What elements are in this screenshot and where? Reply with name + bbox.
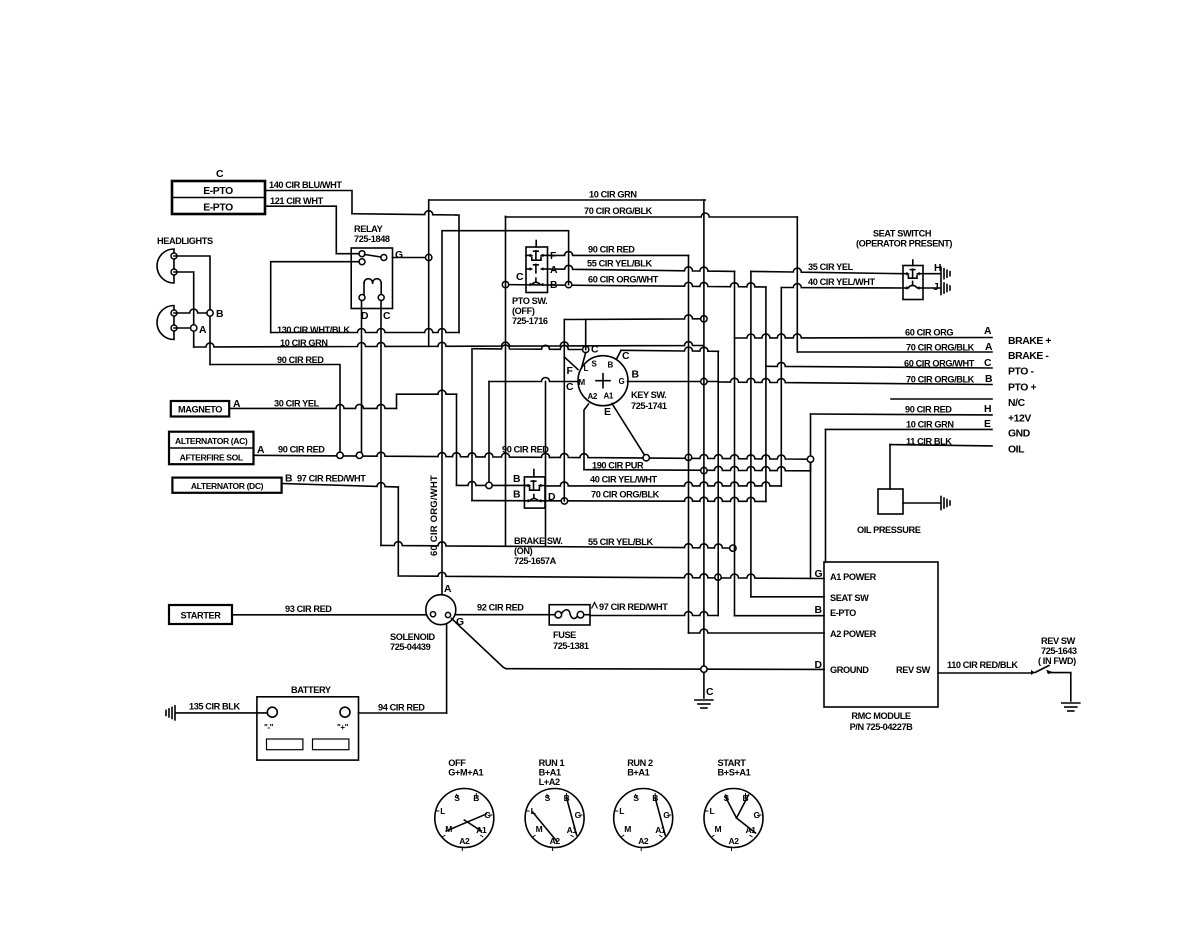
svg-text:A1: A1 [604, 392, 614, 401]
key label A1 [604, 392, 614, 401]
label 60 CIR ORG/WHT out [904, 359, 975, 369]
output pin H label [984, 404, 991, 415]
svg-text:N/C: N/C [1008, 398, 1026, 409]
brake label B bottom [513, 490, 521, 501]
svg-text:L: L [619, 806, 624, 816]
seat switch title [856, 229, 952, 249]
label 70 CIR ORG/BLK out2 [906, 375, 975, 385]
key label G [619, 377, 625, 386]
wire +12V output [811, 414, 993, 459]
svg-text:A: A [199, 325, 207, 336]
wire key G/B row [628, 381, 719, 383]
label 30 CIR YEL [274, 399, 320, 409]
svg-text:B: B [608, 361, 614, 370]
headlight lamp 2 [157, 306, 177, 340]
PTO pin A contact [526, 264, 548, 272]
svg-text:40 CIR YEL/WHT: 40 CIR YEL/WHT [808, 277, 876, 287]
node 60 wire right of PTO [565, 281, 571, 287]
svg-text:RELAY: RELAY [354, 224, 383, 234]
wire key M vertical [488, 382, 490, 486]
label 121 CIR WHT [270, 196, 324, 206]
node 60 wire at C vertical [502, 281, 508, 287]
svg-text:C: C [516, 272, 524, 283]
battery label [291, 685, 331, 695]
svg-text:40 CIR YEL/WHT: 40 CIR YEL/WHT [590, 475, 658, 485]
key label C node [591, 345, 599, 356]
wire relay pin2 to E-PTO return [271, 262, 359, 333]
wire lamp2 bottom to node A [174, 327, 191, 329]
wire oil pressure to ground [903, 497, 950, 510]
svg-text:START: START [718, 758, 747, 768]
wire C node vertical [585, 320, 587, 350]
alternator AC box [169, 432, 254, 465]
alternator DC box [172, 478, 281, 493]
wire seat J ground [923, 282, 950, 295]
node2 rail Va [685, 454, 691, 460]
key position RUN 1 [525, 758, 584, 851]
svg-text:B: B [513, 474, 521, 485]
svg-text:ALTERNATOR (DC): ALTERNATOR (DC) [191, 481, 264, 491]
wire 40 CIR YEL/WHT lower [545, 482, 781, 486]
svg-text:35 CIR YEL: 35 CIR YEL [808, 262, 854, 272]
svg-text:REV SW: REV SW [896, 665, 931, 675]
node ground on V1 [701, 666, 707, 672]
svg-text:E: E [984, 419, 991, 430]
svg-text:F: F [567, 366, 573, 377]
key label L [584, 364, 589, 373]
rev sw contact left [1031, 670, 1035, 675]
wire 60 net jumper up [442, 231, 569, 595]
wire 40 CIR YEL/WHT lower left [457, 481, 529, 485]
svg-text:M: M [624, 824, 631, 834]
label 10 CIR GRN lower [280, 338, 328, 348]
wire 60 CIR ORG/WHT output [766, 362, 992, 368]
svg-text:E: E [604, 407, 611, 418]
label 60 CIR ORG/WHT pto [588, 275, 659, 285]
svg-text:B+A1: B+A1 [627, 768, 649, 778]
vertical stub 545 [545, 382, 547, 546]
wire OIL output [890, 445, 992, 446]
svg-text:A2: A2 [459, 836, 470, 846]
svg-text:A2 POWER: A2 POWER [830, 629, 877, 639]
wire A2 POWER row [689, 629, 825, 633]
svg-text:E-PTO: E-PTO [830, 608, 856, 618]
wire SEAT SW row [751, 596, 824, 598]
PTO SW name label [512, 296, 548, 326]
output pin E label [984, 419, 991, 430]
key label B right [632, 370, 640, 381]
label 97 CIR RED/WHT [297, 474, 366, 484]
wire relay G to node [393, 257, 429, 259]
key name label [631, 390, 667, 411]
wire oil vertical [889, 445, 891, 489]
wire 30 CIR YEL [229, 404, 396, 408]
RMC SEAT SW label [830, 593, 869, 603]
vertical Vf 40YEL/WHT net [780, 288, 782, 486]
RMC module name [850, 711, 914, 732]
wire 70 CIR ORG/BLK top [506, 213, 798, 217]
output BRAKE- label [1008, 351, 1049, 362]
solenoid pins [430, 612, 450, 618]
wire row to C node [474, 345, 583, 350]
svg-text:A: A [550, 265, 558, 276]
svg-text:A: A [444, 584, 452, 595]
svg-text:90 CIR RED: 90 CIR RED [588, 245, 635, 255]
svg-text:B: B [632, 370, 640, 381]
node 90RED relayD junction [356, 452, 362, 458]
svg-text:BRAKE +: BRAKE + [1008, 336, 1051, 347]
relay G label [395, 250, 403, 261]
PTO label F [550, 251, 556, 262]
battery negative terminal [267, 707, 277, 717]
wire 90 CIR RED headlights [210, 365, 340, 456]
magneto label [178, 405, 222, 415]
wire GND output [826, 428, 993, 430]
RMC A2 POWER label [830, 629, 877, 639]
svg-text:B+S+A1: B+S+A1 [718, 768, 751, 778]
key switch center cross [596, 374, 610, 388]
label 135 CIR BLK [189, 702, 241, 712]
svg-text:GROUND: GROUND [830, 665, 869, 675]
svg-text:FUSE: FUSE [553, 630, 576, 640]
wire key E diagonal [612, 404, 646, 458]
output pin A2 label [985, 342, 993, 353]
wire 70 CIR ORG/BLK lower [472, 497, 766, 501]
wire solenoid bottom to battery [446, 624, 448, 713]
svg-text:A1 POWER: A1 POWER [830, 572, 877, 582]
svg-text:RUN 1: RUN 1 [539, 758, 565, 768]
wire 97 vertical to A1 row [397, 487, 399, 576]
output N/C label [1008, 398, 1026, 409]
magneto box [171, 401, 229, 417]
label 92 CIR RED [477, 603, 524, 613]
wire key A2 diagonal [584, 404, 589, 470]
PTO label A [550, 265, 558, 276]
relay K1 725-1648 label [354, 224, 390, 244]
wire 97 fuse output [590, 612, 718, 616]
wire 60 CIR ORG/WHT [506, 282, 766, 287]
wire 90 CIR RED pto F [548, 251, 689, 255]
svg-text:S: S [633, 793, 639, 803]
ground C label [706, 687, 714, 698]
wire 10 CIR GRN lower [194, 342, 704, 347]
svg-text:C: C [622, 351, 630, 362]
svg-text:60 CIR ORG/WHT: 60 CIR ORG/WHT [429, 475, 440, 556]
wire key L diagonal [582, 353, 586, 369]
solenoid A label [444, 584, 452, 595]
wire +12V vertical [810, 459, 812, 578]
svg-text:M: M [536, 824, 543, 834]
svg-text:90 CIR RED: 90 CIR RED [905, 405, 952, 415]
output BRAKE+ label [1008, 336, 1051, 347]
svg-text:70 CIR ORG/BLK: 70 CIR ORG/BLK [906, 375, 975, 385]
wire 110 CIR RED/BLK [938, 672, 1031, 674]
svg-text:97 CIR RED/WHT: 97 CIR RED/WHT [599, 602, 668, 612]
relay pin C label [383, 311, 391, 322]
svg-text:OIL PRESSURE: OIL PRESSURE [857, 525, 921, 535]
label node A [199, 325, 207, 336]
wire lamp1 top to B bus [174, 256, 210, 365]
svg-text:RUN 2: RUN 2 [627, 758, 653, 768]
svg-text:725-1741: 725-1741 [631, 401, 667, 411]
node 70 lower D junction [561, 498, 567, 504]
svg-text:C: C [216, 168, 224, 180]
vertical X1 seat/brake net [734, 271, 736, 615]
fuse box [549, 605, 590, 625]
svg-text:L: L [440, 806, 445, 816]
svg-text:55 CIR YEL/BLK: 55 CIR YEL/BLK [587, 259, 652, 269]
svg-text:55 CIR YEL/BLK: 55 CIR YEL/BLK [588, 537, 653, 547]
PTO switch actuator [535, 241, 537, 248]
alternator A pin label [257, 445, 265, 456]
wire 35 CIR YEL [751, 268, 903, 274]
svg-text:97 CIR RED/WHT: 97 CIR RED/WHT [297, 474, 366, 484]
node1 key E on rail [643, 455, 649, 461]
svg-text:725-1848: 725-1848 [354, 234, 390, 244]
key label C upper right [622, 351, 630, 362]
wire GROUND row [506, 668, 824, 671]
svg-text:A2: A2 [588, 392, 598, 401]
PTO pin B contact [530, 278, 544, 286]
wire 92 CIR RED [456, 614, 549, 616]
rev sw contact right arrow [1046, 670, 1052, 675]
svg-text:(ON): (ON) [514, 546, 533, 556]
seat switch box [903, 266, 923, 300]
svg-text:90 CIR RED: 90 CIR RED [278, 445, 325, 455]
svg-text:30 CIR YEL: 30 CIR YEL [274, 399, 320, 409]
node keyG row on V1 [701, 378, 707, 384]
seat pin J contact [903, 281, 923, 289]
earth ground center [695, 700, 713, 708]
battery cell 2 [313, 739, 349, 750]
label 110 CIR RED/BLK [947, 660, 1018, 670]
fuse A pin mark [592, 603, 598, 609]
magneto pin A label [233, 399, 241, 410]
svg-text:110 CIR RED/BLK: 110 CIR RED/BLK [947, 660, 1018, 670]
svg-text:PTO SW.: PTO SW. [512, 296, 547, 306]
output PTO- label [1008, 367, 1034, 378]
RMC E-PTO label [830, 608, 856, 618]
battery minus label [264, 723, 274, 732]
svg-text:C: C [383, 311, 391, 322]
output +12V label [1008, 414, 1031, 425]
rev sw arm [1035, 666, 1049, 673]
svg-text:70 CIR ORG/BLK: 70 CIR ORG/BLK [591, 490, 660, 500]
svg-text:G: G [395, 250, 403, 261]
fuse name [553, 630, 589, 651]
node A1 row fuse junction [715, 574, 721, 580]
node 55 on X1 [730, 545, 736, 551]
starter box [169, 605, 232, 624]
svg-text:MAGNETO: MAGNETO [178, 405, 222, 415]
svg-text:G+M+A1: G+M+A1 [448, 768, 483, 778]
wire 94 CIR RED [359, 712, 447, 714]
relay pin 2 [359, 259, 365, 265]
RMC module box [824, 562, 938, 707]
svg-text:10 CIR GRN: 10 CIR GRN [906, 420, 954, 430]
wire solenoid G diagonal [452, 619, 507, 669]
wire 93 CIR RED [232, 614, 426, 616]
relay pin C [378, 295, 384, 301]
output pin B label [985, 374, 993, 385]
wire A1 power row [398, 572, 824, 578]
node key M on 40 wire [486, 482, 492, 488]
oil pressure box [878, 489, 903, 514]
relay switch arm [365, 255, 382, 258]
output OIL label [1008, 445, 1025, 456]
relay K1 box [351, 248, 392, 309]
svg-text:94 CIR RED: 94 CIR RED [378, 703, 425, 713]
svg-text:BRAKE -: BRAKE - [1008, 351, 1049, 362]
wire 55 CIR YEL/BLK to X1 [548, 265, 735, 271]
node row319 on V1 [701, 316, 707, 322]
svg-text:70 CIR ORG/BLK: 70 CIR ORG/BLK [584, 206, 653, 216]
relay pin D [359, 295, 365, 301]
label 60 CIR ORG/WHT vertical [429, 475, 440, 556]
wire 60 CIR ORG output [735, 334, 993, 338]
svg-text:M: M [715, 824, 722, 834]
svg-text:STARTER: STARTER [181, 611, 222, 621]
node +12V rail junction [807, 456, 813, 462]
wire key M row [489, 378, 578, 382]
vertical F-net from 319 corner [563, 320, 565, 502]
vertical V1 10GRN [703, 200, 705, 698]
node3 190 on V1 [701, 467, 707, 473]
key switch circle [578, 356, 628, 406]
svg-text:725-1381: 725-1381 [553, 641, 589, 651]
PTO switch box [526, 247, 548, 293]
svg-text:+12V: +12V [1008, 414, 1031, 425]
label 70 CIR ORG/BLK mid [591, 490, 660, 500]
label 90 CIR RED headlights [277, 355, 324, 365]
alternator DC B label [285, 474, 293, 485]
svg-text:"+": "+" [337, 723, 349, 732]
wire lamp2 top to node B [174, 309, 207, 313]
fuse element [549, 610, 590, 619]
battery plus label [337, 723, 349, 732]
RMC B pin label [815, 605, 823, 616]
wire 55 CIR YEL/BLK low [381, 542, 733, 548]
svg-text:B: B [985, 374, 993, 385]
wire row 319 from F-vert [564, 315, 700, 320]
svg-text:BATTERY: BATTERY [291, 685, 331, 695]
output GND label [1008, 429, 1031, 440]
brake label D [548, 492, 556, 503]
wire N/C output [891, 398, 992, 400]
svg-text:M: M [579, 378, 586, 387]
svg-text:93 CIR RED: 93 CIR RED [285, 604, 332, 614]
wire 97 CIR RED/WHT [282, 483, 399, 487]
wire 30 CIR YEL jog [397, 390, 457, 485]
key label F [567, 366, 573, 377]
output PTO+ label [1008, 383, 1036, 394]
svg-text:C: C [566, 382, 574, 393]
wire 121 CIR WHT [265, 206, 358, 254]
label 40 CIR YEL/WHT mid [590, 475, 658, 485]
key position RUN 2 [614, 758, 673, 851]
seat switch actuator [912, 260, 914, 266]
label 97 CIR RED/WHT fuse [599, 602, 668, 612]
brake pin bottom contact [524, 495, 545, 503]
key label E [604, 407, 611, 418]
label 130 CIR WHT/BLK [277, 325, 350, 335]
battery cell 1 [267, 739, 303, 750]
seat pin H contact [903, 269, 923, 278]
node 90RED headlight junction [337, 452, 343, 458]
svg-text:725-1643: 725-1643 [1041, 646, 1077, 656]
svg-text:GND: GND [1008, 429, 1031, 440]
label 40 CIR YEL/WHT seat [808, 277, 876, 287]
wire 70 CIR ORG/BLK output [797, 351, 992, 353]
key label M [579, 378, 586, 387]
svg-text:A: A [257, 445, 265, 456]
svg-text:A2: A2 [550, 836, 561, 846]
label 90 CIR RED out [905, 405, 952, 415]
svg-text:A1: A1 [476, 825, 487, 835]
label node B [216, 309, 224, 320]
wire 190 T up at 810 [810, 459, 812, 471]
key label A2 [588, 392, 598, 401]
output pin A1 label [984, 326, 992, 337]
svg-text:70 CIR ORG/BLK: 70 CIR ORG/BLK [906, 343, 975, 353]
wire GND vertical [825, 429, 827, 562]
svg-text:B: B [216, 309, 224, 320]
svg-text:130 CIR WHT/BLK: 130 CIR WHT/BLK [277, 325, 350, 335]
svg-text:KEY SW.: KEY SW. [631, 390, 666, 400]
svg-text:B: B [815, 605, 823, 616]
vertical Ve 60ORG/WHT net [765, 287, 767, 501]
svg-text:AFTERFIRE SOL: AFTERFIRE SOL [180, 453, 243, 463]
svg-text:H: H [934, 263, 941, 274]
brake switch actuator [533, 470, 535, 477]
svg-text:"-": "-" [264, 723, 274, 732]
svg-text:A2: A2 [638, 836, 649, 846]
svg-text:B: B [513, 490, 521, 501]
relay pin D label [361, 311, 369, 322]
solenoid circle [426, 595, 456, 625]
label 10 CIR GRN out [906, 420, 954, 430]
wire vertical relay G to 10 CIR GRN [428, 200, 430, 347]
wire 140 CIR BLU/WHT [265, 191, 459, 333]
brake switch box [524, 477, 545, 508]
svg-text:SOLENOID: SOLENOID [390, 632, 436, 642]
label 90 CIR RED mid [502, 445, 549, 455]
svg-text:RMC MODULE: RMC MODULE [851, 711, 911, 721]
svg-text:( IN FWD): ( IN FWD) [1038, 656, 1076, 666]
wire 70 CIR ORG/BLK vertical right [796, 217, 798, 352]
seat H label [934, 263, 941, 274]
svg-text:BRAKE SW.: BRAKE SW. [514, 536, 562, 546]
svg-text:A: A [984, 326, 992, 337]
label 90 CIR RED alternator [278, 445, 325, 455]
svg-text:121 CIR WHT: 121 CIR WHT [270, 196, 324, 206]
headlights label [157, 236, 213, 246]
wire rev sw to ground [1048, 673, 1071, 701]
brake pin top contact [524, 481, 545, 490]
wire E-PTO row [735, 615, 825, 617]
label 55 CIR YEL BLK / 35 CIR YEL left [587, 259, 652, 269]
RMC D pin label [815, 660, 823, 671]
label 94 CIR RED [378, 703, 425, 713]
wire relay pin D vertical [361, 301, 363, 456]
battery box [257, 697, 359, 760]
seat J label [933, 282, 939, 293]
svg-text:SEAT SW: SEAT SW [830, 593, 869, 603]
svg-text:C: C [706, 687, 714, 698]
svg-text:PTO -: PTO - [1008, 367, 1034, 378]
wire 135 CIR BLK [176, 712, 267, 714]
wire seat H ground [923, 267, 950, 280]
